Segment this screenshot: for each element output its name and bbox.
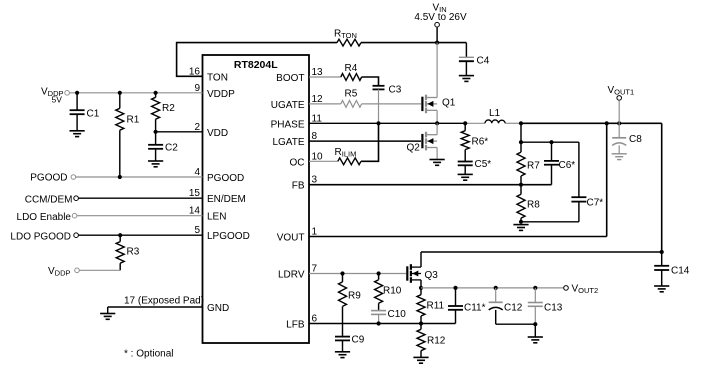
resistor RTON bbox=[334, 29, 361, 47]
svg-text:C2: C2 bbox=[165, 143, 178, 154]
junction R2 top bbox=[154, 91, 158, 95]
junction R10 top on LDRV bbox=[377, 271, 381, 275]
junction C10 bottom on LFB bbox=[377, 321, 381, 325]
junction FB divider node bbox=[519, 183, 523, 187]
svg-text:R6*: R6* bbox=[472, 137, 489, 148]
node VDDP lower terminal bbox=[48, 266, 79, 278]
wire VOUT pin 1 sense bbox=[309, 123, 607, 236]
svg-text:C12: C12 bbox=[504, 303, 523, 314]
svg-text:TON: TON bbox=[207, 72, 228, 83]
wire R7 top to C7 top bbox=[521, 141, 579, 143]
svg-text:VOUT1: VOUT1 bbox=[608, 85, 635, 97]
wire LFB pin 6 bbox=[309, 323, 456, 325]
wire Q2 drain to PHASE bbox=[436, 123, 438, 134]
wire C12 to C13 bottom bbox=[496, 323, 536, 325]
node VDDP 5V terminal bbox=[41, 87, 69, 105]
IC U1 RT8204L controller body bbox=[203, 55, 310, 343]
svg-text:PHASE: PHASE bbox=[271, 119, 305, 130]
resistor R3 bbox=[116, 235, 140, 270]
node VOUT1 terminal bbox=[608, 85, 635, 123]
capacitor C10 bbox=[371, 309, 406, 324]
svg-text:UGATE: UGATE bbox=[271, 100, 305, 111]
svg-text:C10: C10 bbox=[388, 309, 407, 320]
svg-text:C14: C14 bbox=[671, 266, 690, 277]
wire PGOOD to pin 4 bbox=[76, 176, 203, 178]
svg-text:9: 9 bbox=[194, 83, 200, 94]
wire RILIM to PHASE riser bbox=[361, 123, 379, 161]
junction R2/C2 VDD bbox=[154, 130, 158, 134]
wire VOUT2 rail bbox=[421, 287, 564, 289]
ground C8 bbox=[612, 154, 627, 160]
node LDO PGOOD terminal bbox=[10, 231, 78, 242]
svg-text:C9: C9 bbox=[352, 335, 365, 346]
svg-text:C5*: C5* bbox=[475, 159, 492, 170]
svg-text:C4: C4 bbox=[477, 56, 490, 67]
wire GND pin 17 bbox=[108, 296, 204, 314]
wire C13 node to ground bbox=[534, 324, 536, 337]
wire rail to R7 bbox=[520, 123, 522, 142]
junction C13 ground node bbox=[533, 322, 537, 326]
capacitor C12 bbox=[489, 288, 523, 324]
svg-text:C7*: C7* bbox=[587, 198, 604, 209]
capacitor C6* bbox=[544, 142, 575, 185]
svg-text:R3: R3 bbox=[127, 247, 140, 258]
svg-text:LEN: LEN bbox=[207, 212, 226, 223]
svg-text:R9: R9 bbox=[348, 291, 361, 302]
wire Q3 drain riser bbox=[420, 252, 422, 267]
svg-text:R5: R5 bbox=[345, 89, 358, 100]
wire TON net pin 16 to RTON bbox=[177, 43, 337, 77]
wire LDO Enable to pin 14 bbox=[77, 215, 203, 217]
svg-text:LFB: LFB bbox=[286, 320, 305, 331]
wire VDDP to R3 bbox=[79, 269, 120, 271]
node VOUT2 terminal bbox=[564, 284, 598, 296]
svg-text:13: 13 bbox=[312, 67, 324, 78]
svg-text:C1: C1 bbox=[87, 109, 100, 120]
wire RTON to VIN node bbox=[361, 42, 437, 44]
wire L1 to VOUT1 rail bbox=[505, 122, 662, 124]
svg-text:C3: C3 bbox=[389, 85, 402, 96]
resistor R7 bbox=[517, 142, 540, 185]
node PGOOD terminal bbox=[30, 173, 75, 184]
junction R1 bottom on PGOOD bbox=[118, 175, 122, 179]
junction C11 top on VOUT2 bbox=[453, 286, 457, 290]
svg-text:R8: R8 bbox=[527, 200, 540, 211]
junction R9 top on LDRV bbox=[340, 271, 344, 275]
capacitor C3 bbox=[373, 85, 402, 96]
junction C14 node bbox=[660, 250, 664, 254]
transistor Q3 bbox=[407, 264, 438, 283]
junction R7 riser on rail bbox=[519, 121, 523, 125]
wire VDD pin 2 bbox=[156, 131, 203, 133]
ground R8 bbox=[513, 225, 528, 231]
capacitor C9 bbox=[335, 324, 365, 352]
junction Q1/Q2 on PHASE bbox=[435, 121, 439, 125]
svg-text:* : Optional: * : Optional bbox=[124, 349, 173, 360]
note Optional bbox=[124, 349, 173, 360]
svg-text:LDO PGOOD: LDO PGOOD bbox=[10, 231, 71, 242]
svg-text:LDO Enable: LDO Enable bbox=[17, 212, 72, 223]
wire Q1 drain from VIN bbox=[436, 43, 438, 98]
wire R5 to Q1 gate bbox=[362, 103, 421, 105]
junction C12 top on VOUT2 bbox=[494, 286, 498, 290]
svg-text:C11*: C11* bbox=[464, 303, 486, 314]
svg-text:LDRV: LDRV bbox=[278, 270, 305, 281]
ground C9 bbox=[335, 352, 350, 358]
resistor R12 bbox=[417, 324, 446, 358]
svg-text:R12: R12 bbox=[427, 336, 446, 347]
svg-text:VDD: VDD bbox=[207, 128, 228, 139]
transistor Q2 bbox=[407, 132, 438, 154]
U1 left pin numbers and names bbox=[189, 66, 250, 314]
junction VIN node bbox=[435, 41, 439, 45]
wire C7 bottom to R8 bottom bbox=[521, 221, 579, 223]
wire LGATE pin 8 to Q2 gate bbox=[309, 140, 421, 142]
resistor R10 bbox=[375, 274, 402, 311]
wire CCM/DEM to pin 15 bbox=[79, 197, 203, 199]
resistor R8 bbox=[517, 185, 540, 222]
svg-text:RILIM: RILIM bbox=[335, 147, 357, 159]
node CCM/DEM terminal bbox=[25, 195, 79, 206]
wire FB pin 3 bbox=[309, 184, 552, 186]
svg-text:14: 14 bbox=[189, 206, 201, 217]
wire OC pin 10 to RILIM bbox=[309, 160, 338, 162]
svg-text:BOOT: BOOT bbox=[276, 73, 304, 84]
capacitor C7* bbox=[571, 142, 603, 222]
wire VDDP rail to pin 9 bbox=[70, 92, 203, 94]
capacitor C4 bbox=[459, 43, 490, 76]
svg-text:RT8204L: RT8204L bbox=[234, 59, 278, 71]
wire LDO PGOOD to pin 5 bbox=[79, 234, 203, 236]
ground C2 bbox=[148, 161, 163, 167]
svg-text:LGATE: LGATE bbox=[272, 137, 304, 148]
svg-text:R11: R11 bbox=[427, 301, 445, 312]
svg-text:4: 4 bbox=[194, 167, 200, 178]
capacitor C11* bbox=[448, 288, 486, 324]
resistor R5 bbox=[341, 89, 362, 108]
capacitor C14 bbox=[654, 252, 690, 286]
svg-text:VOUT: VOUT bbox=[277, 233, 305, 244]
inductor L1 bbox=[485, 108, 505, 123]
wire Q2 source to ground bbox=[436, 148, 438, 160]
svg-text:7: 7 bbox=[312, 264, 318, 275]
svg-text:GND: GND bbox=[207, 303, 229, 314]
svg-text:PGOOD: PGOOD bbox=[207, 173, 244, 184]
ground C1 bbox=[70, 131, 85, 137]
wire LDRV pin 7 to Q3 gate bbox=[309, 273, 406, 275]
resistor R11 bbox=[417, 288, 445, 324]
svg-text:VDDP: VDDP bbox=[48, 266, 71, 278]
capacitor C5* bbox=[458, 159, 492, 174]
ground C14 bbox=[654, 286, 669, 292]
wire Q3 source to VOUT2 rail bbox=[420, 280, 422, 288]
svg-text:4.5V to 26V: 4.5V to 26V bbox=[414, 12, 467, 23]
wire VIN to C4 bbox=[437, 42, 466, 44]
svg-text:Q1: Q1 bbox=[442, 98, 456, 109]
resistor R9 bbox=[339, 274, 362, 324]
resistor RILIM bbox=[335, 147, 362, 165]
svg-text:R7: R7 bbox=[527, 161, 540, 172]
svg-text:R10: R10 bbox=[383, 286, 402, 297]
junction R11/R12 node on LFB bbox=[419, 321, 423, 325]
svg-text:17 (Exposed Pad): 17 (Exposed Pad) bbox=[124, 296, 204, 307]
junction R3 top bbox=[118, 233, 122, 237]
svg-text:LPGOOD: LPGOOD bbox=[207, 231, 250, 242]
junction VOUT sense riser on rail bbox=[605, 121, 609, 125]
ground GND pin bbox=[100, 314, 115, 320]
U1 right pin numbers and names bbox=[271, 67, 323, 331]
wire PHASE rail pin 11 to L1 bbox=[309, 122, 485, 124]
wire BOOT pin 13 to R4 bbox=[309, 76, 341, 78]
resistor R4 bbox=[341, 63, 362, 80]
ground C5* bbox=[458, 174, 473, 180]
resistor R6* bbox=[461, 123, 488, 161]
svg-text:C8: C8 bbox=[629, 134, 642, 145]
svg-text:RTON: RTON bbox=[334, 29, 357, 41]
svg-text:Q2: Q2 bbox=[407, 143, 421, 154]
junction C6 top bbox=[549, 140, 553, 144]
wire C3 to PHASE bbox=[378, 89, 380, 123]
junction Q3 source node bbox=[419, 286, 423, 290]
svg-text:R4: R4 bbox=[345, 63, 358, 74]
svg-text:EN/DEM: EN/DEM bbox=[207, 194, 246, 205]
wire LDO input Q3 drain feed bbox=[421, 251, 662, 253]
svg-text:10: 10 bbox=[312, 151, 324, 162]
wire rail corner down to C14 node bbox=[661, 123, 663, 252]
svg-text:C13: C13 bbox=[544, 303, 563, 314]
wire R4 to C3 corner bbox=[362, 77, 379, 86]
svg-text:FB: FB bbox=[292, 181, 305, 192]
svg-text:VDDP: VDDP bbox=[207, 89, 235, 100]
svg-text:R2: R2 bbox=[162, 103, 175, 114]
svg-text:Q3: Q3 bbox=[425, 270, 439, 281]
svg-text:CCM/DEM: CCM/DEM bbox=[25, 195, 73, 206]
wire Q1 source to PHASE bbox=[436, 110, 438, 123]
junction C8 on rail bbox=[617, 121, 621, 125]
junction C3/RILIM on PHASE bbox=[376, 121, 380, 125]
ground R12 bbox=[413, 357, 428, 363]
capacitor C2 bbox=[148, 132, 178, 161]
node LDO Enable terminal bbox=[17, 212, 77, 223]
junction R8 bottom node bbox=[519, 220, 523, 224]
node VIN terminal bbox=[414, 3, 467, 43]
svg-text:OC: OC bbox=[290, 157, 305, 168]
ground Q2 source bbox=[430, 160, 445, 166]
wire UGATE pin 12 to Q1 gate bbox=[309, 103, 341, 105]
transistor Q1 bbox=[422, 95, 455, 114]
capacitor C13 bbox=[528, 288, 563, 324]
junction R1 top bbox=[118, 91, 122, 95]
svg-text:5V: 5V bbox=[52, 95, 63, 105]
svg-text:C6*: C6* bbox=[559, 160, 576, 171]
resistor R2 bbox=[152, 93, 176, 132]
junction C13 top on VOUT2 bbox=[533, 286, 537, 290]
svg-text:L1: L1 bbox=[489, 108, 501, 119]
resistor R1 bbox=[116, 93, 140, 177]
svg-text:PGOOD: PGOOD bbox=[30, 173, 67, 184]
capacitor C1 bbox=[70, 93, 100, 131]
junction C1 top bbox=[75, 91, 79, 95]
ground C4 bbox=[459, 76, 474, 82]
junction R7 top node bbox=[519, 140, 523, 144]
capacitor C8 bbox=[612, 123, 642, 154]
svg-text:12: 12 bbox=[312, 94, 324, 105]
svg-text:VOUT2: VOUT2 bbox=[572, 284, 599, 296]
ground C12/C13 bbox=[528, 337, 543, 343]
svg-text:R1: R1 bbox=[127, 115, 140, 126]
junction R6 on PHASE bbox=[463, 121, 467, 125]
